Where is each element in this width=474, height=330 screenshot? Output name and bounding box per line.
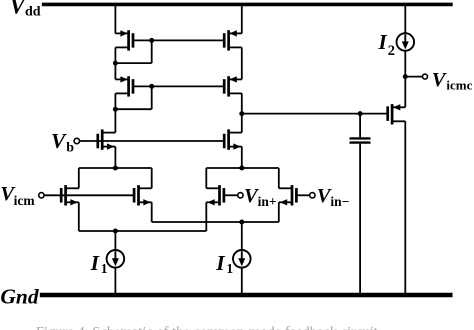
pmos M2 (mirror out)	[224, 30, 242, 50]
wire tail net 1 (M7,M9 sources)	[79, 230, 207, 232]
wire M7 source down	[78, 202, 80, 231]
terminal Vicmc	[423, 74, 428, 79]
nmos M7 (Vicm input)	[61, 185, 79, 205]
pmos M11 (CM output)	[388, 104, 406, 124]
wire M9 source down	[205, 202, 207, 231]
wire tail net 2 (M8,M10 sources)	[152, 221, 279, 223]
wire M10 gate to Vin-	[297, 194, 310, 196]
wire Vdd to I2	[404, 4, 406, 33]
wire I1 to Gnd	[114, 268, 116, 295]
current source I1 right	[233, 250, 251, 268]
node tail 2	[239, 220, 244, 225]
wire I2 to M11 source	[404, 51, 406, 108]
wire tail2 to I1	[241, 222, 243, 250]
Vdd rail	[42, 3, 453, 7]
wire M5 drain to left pair	[114, 147, 116, 168]
node M1 drain/gate tie	[113, 61, 118, 66]
current source I1 left	[107, 250, 125, 268]
node capacitor top	[358, 111, 363, 116]
nmos M10 (Vin- input)	[279, 185, 297, 205]
svg-text:Gnd: Gnd	[0, 284, 39, 308]
node M1 gate junction	[149, 38, 154, 43]
wire capacitor to Gnd	[359, 144, 361, 295]
svg-text:2: 2	[388, 43, 395, 59]
nmos M9 (Vin+ input)	[206, 185, 224, 205]
wire M11 drain to Gnd	[404, 121, 406, 295]
svg-text:1: 1	[226, 261, 233, 276]
svg-text:I: I	[90, 251, 100, 275]
wire M1 gate-drain diode connection	[151, 40, 153, 63]
wire M4 drain to M6 source	[241, 93, 243, 132]
Gnd rail	[40, 293, 453, 298]
pmos M6 (Vb cascode)	[224, 129, 242, 149]
node tail 1	[113, 229, 118, 234]
terminal Vin-	[310, 193, 315, 198]
wire M8 source down	[151, 202, 153, 222]
node right pair drain join	[239, 166, 244, 171]
wire left pair drains top	[79, 167, 152, 169]
svg-text:in+: in+	[258, 194, 277, 209]
pmos M5 (Vb cascode)	[98, 129, 116, 149]
wire M3-M4 mirror gates	[133, 85, 224, 87]
wire to capacitor	[359, 114, 361, 138]
svg-text:b: b	[66, 141, 74, 156]
pmos M4 (cascode out)	[224, 76, 242, 96]
svg-text:icmc: icmc	[446, 78, 472, 93]
wire right pair drains top	[206, 167, 278, 169]
svg-text:I: I	[215, 251, 225, 275]
wire M1 drain to M3 source	[114, 47, 116, 79]
nmos M8 (Vicm input)	[134, 185, 152, 205]
wire M3 gate-drain diode connection	[151, 86, 153, 109]
node CM output tap	[239, 111, 244, 116]
svg-text:Figure 4: Schematic of the com: Figure 4: Schematic of the common-mode f…	[36, 325, 378, 330]
wire to M8 drain	[151, 168, 153, 188]
wire M9 gate to Vin+	[224, 194, 238, 196]
terminal Vin+	[238, 193, 243, 198]
wire to M10 drain	[278, 168, 280, 188]
wire Vdd to M2 source	[241, 4, 243, 33]
svg-text:V: V	[51, 129, 67, 153]
pmos M3 (diode cascode)	[115, 76, 133, 96]
capacitor C1	[350, 138, 371, 142]
wire M3 drain to M5 source	[114, 93, 116, 132]
wire to M7 drain	[78, 168, 80, 188]
wire M1-M2 mirror gates	[133, 39, 224, 41]
svg-text:V: V	[432, 69, 448, 91]
wire M2 drain to M4 source	[241, 47, 243, 79]
svg-text:in−: in−	[330, 194, 349, 209]
wire CM tap to M11 gate	[242, 113, 388, 115]
svg-text:icm: icm	[14, 193, 36, 208]
pmos M1 (diode mirror)	[115, 30, 133, 50]
current source I2	[397, 33, 415, 51]
svg-text:dd: dd	[25, 5, 41, 20]
node Vicmc	[403, 74, 408, 79]
wire M10 source down	[278, 202, 280, 222]
terminal Vb	[74, 138, 79, 143]
wire tail1 to I1	[114, 231, 116, 250]
wire Vb to M5,M6 gates	[79, 140, 224, 142]
node M3 drain/gate tie	[113, 107, 118, 112]
svg-text:1: 1	[101, 261, 108, 276]
wire to M9 drain	[205, 168, 207, 188]
wire I1 to Gnd	[241, 268, 243, 295]
wire Vdd to M1 source	[114, 4, 116, 33]
terminal Vicm	[39, 193, 44, 198]
wire to Vicmc terminal	[405, 76, 422, 78]
wire Vicm to M7,M8 gates	[44, 194, 133, 196]
node left pair drain join	[113, 166, 118, 171]
wire M6 drain to right pair	[241, 147, 243, 168]
node M3 gate junction	[149, 84, 154, 89]
svg-text:I: I	[377, 30, 387, 54]
